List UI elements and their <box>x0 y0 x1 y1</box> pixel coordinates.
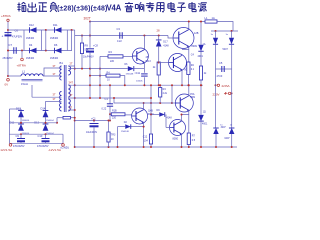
svg-text:D12: D12 <box>34 120 39 124</box>
wire top rail <box>90 21 205 23</box>
wire rail y30 <box>8 29 75 31</box>
transistor Q5 <box>175 94 193 112</box>
junction D11 low <box>20 133 22 135</box>
diode D12 <box>30 27 37 33</box>
svg-text:R9: R9 <box>85 43 89 47</box>
wire Q1 emitter <box>143 62 145 72</box>
title char dian6 <box>189 2 196 12</box>
wire bottom rail <box>75 146 237 148</box>
wire Q2 collector <box>188 22 190 30</box>
wire bridge mid leg a <box>41 30 43 51</box>
wire sec tap4 <box>68 109 74 111</box>
wire C9 stem low <box>20 142 22 143</box>
wire D7 to Q1 <box>134 68 145 70</box>
junction x74.7 y85.2 <box>74 84 76 86</box>
svg-text:C5A: C5A <box>190 93 195 96</box>
svg-text:1A: 1A <box>203 43 206 46</box>
transformer B1 primary winding upper <box>60 66 62 80</box>
wire fuse to bridge <box>217 22 233 32</box>
svg-text:D11: D11 <box>10 120 15 124</box>
wire tap aux2 <box>46 100 62 102</box>
junction x182 y85.2 <box>181 84 183 86</box>
svg-text:1A: 1A <box>212 16 215 20</box>
svg-text:V4A: V4A <box>107 4 122 13</box>
wire Q2 emitter down <box>188 46 190 62</box>
wire R9 down <box>81 54 83 69</box>
wire Q3 emitter <box>181 70 183 86</box>
junction x201 y85.2b <box>200 84 202 86</box>
capacitor C3 <box>120 32 122 39</box>
transistor Q4 <box>132 108 148 124</box>
junction x100 y85.2 <box>99 84 101 86</box>
wire zener top <box>158 36 160 40</box>
svg-text:3407: 3407 <box>221 127 227 129</box>
svg-text:Q4B: Q4B <box>148 110 153 113</box>
junction x8 y30 <box>7 29 9 31</box>
wire aux1 stub <box>31 85 33 97</box>
junction y31 a <box>215 30 217 32</box>
wire emitter to diode <box>131 126 144 128</box>
svg-text:B1: B1 <box>60 61 64 65</box>
svg-text:=C11: =C11 <box>135 72 141 75</box>
wire x57 to 12V rail <box>56 118 58 123</box>
wire thermistor left <box>57 117 63 119</box>
svg-text:L1: L1 <box>22 70 26 74</box>
svg-text:1Q: 1Q <box>203 111 206 114</box>
wire x160 y85-87 <box>159 85 161 87</box>
junction x90 y98 <box>89 97 91 99</box>
junction x57 y122.8 <box>56 122 58 124</box>
wire bridge right leg b <box>71 30 73 51</box>
junction x8 y76 <box>7 75 9 77</box>
svg-text:C12: C12 <box>143 136 148 139</box>
wire 0V to L1 <box>8 75 21 77</box>
wire R11 down <box>200 80 202 85</box>
wire C8 top <box>89 22 91 48</box>
wire Q3 collector join <box>182 49 189 51</box>
svg-text:D6: D6 <box>54 43 58 47</box>
junction bottom rail 3 <box>143 146 145 148</box>
resistor R5 <box>157 62 160 75</box>
junction x22 y50.5 <box>21 50 23 52</box>
wire C7 tap down <box>21 51 23 59</box>
svg-text:5407: 5407 <box>223 48 229 51</box>
wire D10 down <box>200 121 202 147</box>
transformer B1 core <box>63 65 65 112</box>
fuse BX1 <box>205 20 217 23</box>
terminal +8TRA <box>7 19 9 21</box>
junction x110 y114.3 <box>109 113 111 115</box>
junction x172 y85.2 <box>171 84 173 86</box>
transistor Q6 <box>170 120 186 136</box>
junction x188.4 y85.2 <box>187 84 189 86</box>
wire C12 top <box>150 115 152 135</box>
wire bridge left leg <box>23 30 25 51</box>
junction pushpull mid <box>181 114 183 116</box>
wire ACN down <box>231 92 233 128</box>
wire D8 left <box>118 126 126 128</box>
junction x94 y120.5 <box>93 120 95 122</box>
capacitor C8 <box>86 49 94 53</box>
svg-text:47UF50V: 47UF50V <box>12 36 23 39</box>
resistor R7 <box>187 133 190 145</box>
svg-text:C6: C6 <box>15 29 19 33</box>
transformer B1 secondary winding middle <box>68 85 70 97</box>
diode D16 <box>229 38 234 45</box>
junction AC L <box>215 84 217 86</box>
junction x144 y85.2 <box>143 84 145 86</box>
wire 12V left leg <box>8 109 10 143</box>
title char yuan7 <box>198 3 207 12</box>
svg-text:3407: 3407 <box>224 137 230 140</box>
wire Q4 emitter down <box>143 127 145 147</box>
svg-text:1N4148: 1N4148 <box>126 73 134 75</box>
svg-text:302T: 302T <box>84 16 91 20</box>
junction y50.5 x45.8 <box>45 50 47 52</box>
svg-text:0V: 0V <box>5 83 9 87</box>
junction bottom rail 4 <box>150 146 152 148</box>
junction x74.7 y68.6 <box>74 68 76 70</box>
transistor Q2 <box>173 28 194 49</box>
junction Q5 collector <box>188 84 190 86</box>
junction x100 y98 <box>99 97 101 99</box>
wire sec tap3 <box>68 97 151 99</box>
resistor R6 <box>106 74 120 77</box>
svg-text:1N5400: 1N5400 <box>50 58 59 60</box>
diode D7 <box>128 66 134 71</box>
wire D13 top stub <box>20 109 22 111</box>
wire D16 top <box>231 31 233 38</box>
svg-text:+C1: +C1 <box>91 117 96 120</box>
svg-text:R4: R4 <box>109 50 113 54</box>
wire D15 top <box>215 31 217 38</box>
svg-text:34T: 34T <box>69 81 74 85</box>
title char chu <box>28 2 36 11</box>
wire x82 top <box>81 36 83 44</box>
junction x90 y35.5 <box>89 35 91 37</box>
junction x74.7 y117.7 <box>74 117 76 119</box>
title char yin0 <box>125 2 134 12</box>
junction x74.7 y110 <box>74 109 76 111</box>
wire zener down <box>158 46 160 62</box>
junction D5 rail <box>200 21 202 23</box>
terminal +8TRA lower <box>21 58 24 61</box>
transformer B1 primary winding lower <box>60 92 62 112</box>
svg-text:4148: 4148 <box>167 118 173 120</box>
junction x100 y68.6 <box>99 68 101 70</box>
svg-text:2T: 2T <box>70 62 73 66</box>
svg-text:+C8: +C8 <box>93 43 98 47</box>
resistor R12 <box>111 113 125 116</box>
junction x124.8 y85.2 <box>124 84 126 86</box>
wire C10 stem <box>45 134 47 138</box>
capacitor C1 bulk <box>90 124 99 128</box>
wire Q6 emitter <box>181 134 183 147</box>
svg-text:220V: 220V <box>213 92 220 96</box>
wire x172 85-104 <box>171 85 173 104</box>
resistor R9 <box>80 43 83 54</box>
wire D13-D11 link <box>20 117 22 124</box>
wire base feed y56.4 <box>100 55 108 57</box>
wire C8 down <box>89 52 91 98</box>
wire 12V right leg <box>62 134 64 143</box>
wire D5 down <box>200 51 202 66</box>
diode D15 <box>213 38 218 45</box>
svg-text:7809: 7809 <box>190 97 196 99</box>
wire C10 stem low <box>45 142 47 143</box>
wire C9 stem <box>20 134 22 138</box>
diode D5 <box>198 45 203 52</box>
svg-text:4148: 4148 <box>163 44 169 47</box>
junction bottom rail 8 <box>215 146 217 148</box>
junction x82 y68.6 <box>81 68 83 70</box>
wire R12 to Q4 <box>125 114 132 116</box>
transformer B1 secondary winding upper <box>68 66 70 75</box>
resistor TR3 <box>107 132 110 142</box>
junction y30 x45.8 <box>45 29 47 31</box>
wire x110 y114-120 <box>109 114 111 120</box>
wire L1 out <box>43 75 44 77</box>
title char xiang1 <box>135 2 143 12</box>
wire D13 top feed <box>9 108 21 110</box>
wire Q5 collector <box>188 85 190 96</box>
svg-text:1N5400: 1N5400 <box>50 38 59 40</box>
svg-text:3T: 3T <box>70 93 73 97</box>
capacitor C11 <box>141 74 148 76</box>
title char zi5 <box>177 3 186 12</box>
svg-text:D14: D14 <box>41 107 46 111</box>
junction Q4 collector <box>143 102 145 104</box>
junction 302T <box>89 21 91 23</box>
svg-text:12B: 12B <box>194 32 199 35</box>
diode D18 lower <box>229 128 235 134</box>
wire bridge top rail <box>211 30 238 32</box>
svg-text:15mH: 15mH <box>21 82 28 86</box>
title char zheng <box>38 3 47 12</box>
svg-text:+8TRA: +8TRA <box>17 64 26 68</box>
wire C1 down <box>93 127 95 147</box>
svg-text:3T: 3T <box>53 72 56 76</box>
wire C2 down <box>109 106 111 114</box>
wire TR3 down <box>108 142 110 147</box>
terminal 0V <box>7 79 10 82</box>
junction x74.7 y98 <box>74 97 76 99</box>
wire x118 down <box>117 127 119 147</box>
wire D14-D12 link <box>45 117 47 124</box>
svg-text:D12: D12 <box>29 23 34 27</box>
wire D5 top <box>200 22 202 45</box>
wire R6 right <box>120 76 125 86</box>
svg-text:0.22: 0.22 <box>117 40 122 43</box>
wire rail y103 <box>114 102 177 104</box>
resistor R4 base <box>108 55 123 58</box>
svg-text:3T: 3T <box>69 106 72 110</box>
junction rail2 x158.7 <box>158 35 160 37</box>
wire D17 to rail <box>215 134 217 147</box>
svg-text:R1B: R1B <box>112 110 117 113</box>
wire ACL down <box>215 83 217 128</box>
svg-text:25UF25V: 25UF25V <box>3 57 14 60</box>
junction bottom rail 9 <box>231 146 233 148</box>
svg-text:4001: 4001 <box>202 123 208 126</box>
svg-text:1N4148: 1N4148 <box>121 131 129 133</box>
wire sec tap2 rail <box>68 84 203 86</box>
wire D18 to rail <box>231 134 233 147</box>
junction y31 b <box>231 30 233 32</box>
wire 12V rail low <box>9 133 63 135</box>
svg-text:4001: 4001 <box>198 55 204 58</box>
resistor R11 <box>199 66 202 80</box>
junction x8 y50.5 <box>7 50 9 52</box>
wire tap primary lower <box>44 75 62 77</box>
junction x90 y68.6 <box>89 68 91 70</box>
wire x151 y85-114.5 <box>150 85 152 114</box>
junction x172 y103 <box>171 102 173 104</box>
junction x151 y98 <box>150 97 152 99</box>
inductor L1 <box>21 74 43 76</box>
junction x151 y85.2 <box>150 84 152 86</box>
diode D6 <box>55 48 62 54</box>
svg-text:+: + <box>2 35 4 39</box>
wire HV feed x74.7 <box>74 30 76 147</box>
junction x110 y120.5 <box>109 120 111 122</box>
wire Q1 collector <box>143 36 145 50</box>
diode D17 lower <box>213 128 219 134</box>
svg-text:D17: D17 <box>163 41 168 44</box>
junction x151 y103 <box>150 102 152 104</box>
svg-text:1N5400: 1N5400 <box>26 58 35 60</box>
svg-text:8009: 8009 <box>192 45 198 48</box>
diode D10 <box>198 115 204 121</box>
diode D4 <box>30 48 37 54</box>
svg-text:D11: D11 <box>53 23 58 27</box>
svg-text:C7: C7 <box>9 43 13 47</box>
svg-text:28: 28 <box>157 28 161 32</box>
junction bottom rail 0 <box>93 146 95 148</box>
svg-text:10uF400V: 10uF400V <box>83 56 94 58</box>
title char dian4 <box>168 2 175 12</box>
wire y75.6 left <box>90 75 106 77</box>
wire x100 link <box>99 56 101 98</box>
diode D14 <box>43 111 49 118</box>
wire y68.6 left <box>90 68 128 70</box>
wire x166 base link <box>165 115 167 128</box>
junction x108.5 y120.5 <box>108 120 110 122</box>
junction y30 x71.6 <box>71 29 73 31</box>
svg-text:8050: 8050 <box>173 138 179 141</box>
wire R7 top <box>188 115 190 134</box>
wire +8TRA down <box>7 22 9 77</box>
svg-text:(±28)(±36)(±48): (±28)(±36)(±48) <box>57 5 107 12</box>
junction x151 y114.5 <box>150 114 152 116</box>
wire R5 down <box>158 75 160 85</box>
capacitor C5 <box>222 66 224 72</box>
junction bottom rail 2 <box>117 146 119 148</box>
wire D9 left <box>151 114 159 116</box>
title char zhuan2 <box>146 2 155 12</box>
terminal -12V <box>62 144 65 147</box>
junction x90 y75.6 <box>89 75 91 77</box>
capacitor C7 <box>14 47 16 54</box>
wire sec tap0 <box>68 65 74 67</box>
wire Q3 base <box>159 62 169 64</box>
svg-text:220VL: 220VL <box>222 84 231 88</box>
wire C11 down <box>143 77 145 85</box>
junction x160 y103 <box>159 102 161 104</box>
capacitor C10 <box>42 139 50 143</box>
wire D16 down <box>231 44 233 92</box>
capacitor C2 0.22 <box>107 104 113 106</box>
resistor R10 emitter <box>187 62 190 75</box>
capacitor C9 <box>17 139 25 143</box>
svg-text:3T: 3T <box>53 92 56 96</box>
svg-text:1N5400: 1N5400 <box>26 38 35 40</box>
svg-text:C10: C10 <box>38 134 43 138</box>
svg-text:4B: 4B <box>146 56 149 59</box>
transistor Q3 <box>169 54 187 72</box>
wire Q6 base <box>166 127 170 129</box>
resistor R13 <box>159 88 162 98</box>
svg-text:D4: D4 <box>29 43 33 47</box>
junction x114 y98 <box>113 97 115 99</box>
svg-text:104: 104 <box>144 140 149 143</box>
svg-text:220: 220 <box>112 117 117 120</box>
zener D17 <box>156 40 162 47</box>
junction D14 mid <box>45 122 47 124</box>
svg-text:C5: C5 <box>219 61 223 65</box>
wire TR3 top <box>108 121 110 133</box>
wire AC cap link <box>216 68 232 70</box>
svg-text:12V1.5A: 12V1.5A <box>0 148 13 152</box>
wire R13 down <box>159 97 161 103</box>
svg-text:TR3: TR3 <box>111 134 116 137</box>
wire C12 down <box>150 144 152 147</box>
wire thermistor right <box>71 117 75 119</box>
wire diode D9 right <box>165 114 167 116</box>
wire sec tap1 <box>68 68 90 70</box>
junction AC N <box>231 92 233 94</box>
svg-text:9013: 9013 <box>146 61 152 63</box>
terminal AC N <box>228 92 230 94</box>
diode D9 <box>159 112 165 117</box>
wire tap primary upper <box>44 68 62 76</box>
svg-text:10uF400V: 10uF400V <box>86 131 97 134</box>
svg-text:C3: C3 <box>117 27 121 31</box>
svg-text:C1: C1 <box>105 97 109 101</box>
wire 12V rail out <box>9 142 63 144</box>
svg-text:1N4004: 1N4004 <box>22 120 30 122</box>
svg-text:47UF: 47UF <box>217 75 223 78</box>
junction D13 mid <box>20 122 22 124</box>
wire bridge right leg a <box>66 30 68 51</box>
diode D11 lower <box>18 124 24 131</box>
wire aux2 down to D14 <box>45 101 47 111</box>
junction x158.7 y85.2 <box>158 84 160 86</box>
terminal 12V <box>9 144 12 147</box>
junction x144 y126.6 <box>143 126 145 128</box>
transistor Q1 <box>132 48 148 64</box>
wire C1 stem <box>93 121 95 123</box>
junction Q2 collector rail <box>188 21 190 23</box>
wire tap aux1 <box>32 96 62 98</box>
junction bottom rail 6 <box>188 146 190 148</box>
svg-text:3T: 3T <box>53 64 56 68</box>
wire x114 y98-103 <box>113 98 115 103</box>
junction x158.7 y62.5 <box>158 62 160 64</box>
arrow 220V <box>225 93 228 95</box>
transformer B1 secondary winding lower <box>68 99 70 111</box>
svg-text:0.22: 0.22 <box>102 108 107 111</box>
